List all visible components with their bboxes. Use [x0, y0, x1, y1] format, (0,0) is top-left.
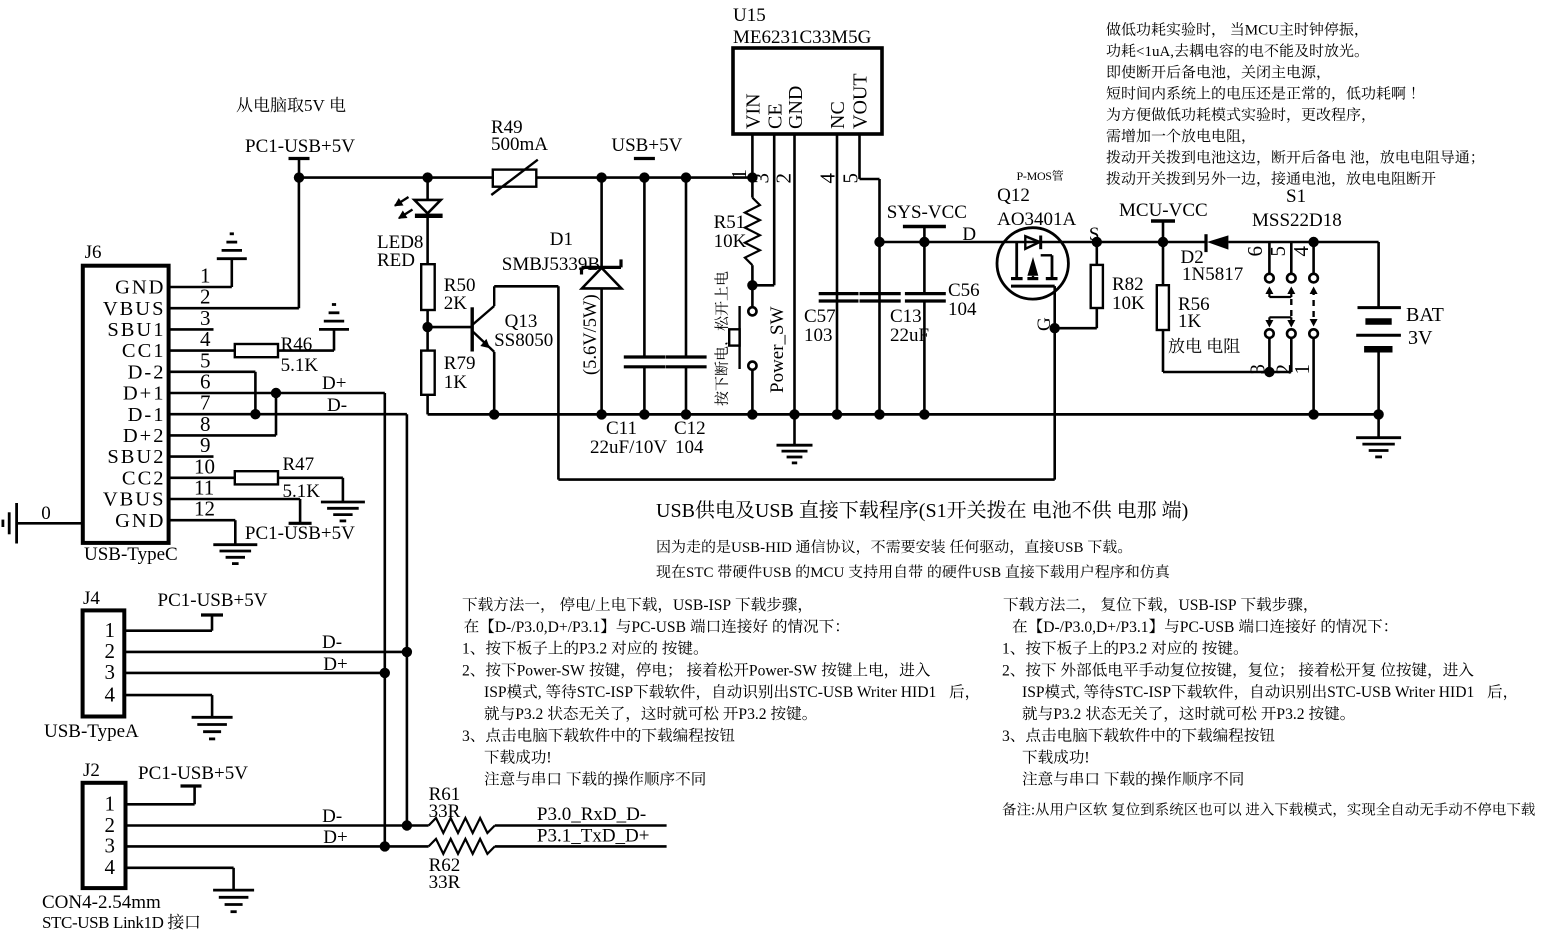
fuse R49 500mA	[493, 170, 537, 187]
power port PC1-USB+5V (J2)	[181, 784, 202, 787]
wire J6 pin12 GND	[169, 519, 236, 522]
method-2 column line 8	[1023, 750, 1084, 764]
svg-text:4: 4	[1289, 246, 1313, 257]
svg-text:P3.2: P3.2	[1276, 706, 1304, 723]
svg-text:J4: J4	[83, 588, 100, 609]
svg-text:P-MOS: P-MOS	[1017, 169, 1052, 183]
svg-text:S1: S1	[1286, 186, 1306, 207]
svg-text:3: 3	[1246, 364, 1270, 375]
ground symbol J6 shield (left)	[15, 503, 18, 544]
svg-text:SYS-VCC: SYS-VCC	[887, 202, 967, 223]
note block top-right line 8	[1107, 171, 1436, 187]
svg-text:SS8050: SS8050	[494, 330, 553, 351]
svg-text:4: 4	[105, 682, 116, 706]
wire J2 pin1 to PC1-USB+5V	[126, 803, 195, 806]
svg-text:/: /	[591, 597, 596, 614]
svg-text:12: 12	[194, 497, 215, 521]
pin number 5	[1266, 246, 1290, 257]
svg-text:MSS22D18: MSS22D18	[1252, 210, 1342, 231]
svg-text:!: !	[546, 750, 551, 767]
svg-text:J6: J6	[85, 242, 102, 263]
svg-text:SMBJ5339B: SMBJ5339B	[502, 254, 600, 275]
connector J2 CON4-2.54mm box	[83, 783, 126, 888]
note block top-right line 7	[1107, 150, 1346, 166]
svg-text:2K: 2K	[444, 293, 468, 314]
wire R79 to gnd rail	[426, 395, 429, 415]
svg-text:1: 1	[1290, 364, 1314, 375]
svg-text:D-: D-	[327, 395, 347, 416]
wire J6 pin0 shield	[17, 522, 83, 525]
svg-text:VIN: VIN	[743, 93, 765, 129]
svg-text:USB: USB	[972, 565, 1001, 581]
wire J6 pin3 SBU1 stub	[169, 328, 214, 331]
svg-text:104: 104	[675, 437, 704, 458]
pin label GND	[785, 86, 807, 129]
pin number 6	[1243, 246, 1267, 257]
svg-text:VBUS: VBUS	[103, 489, 166, 511]
svg-text:103: 103	[804, 325, 833, 346]
zener diode D1 SMBJ5339B	[600, 178, 603, 268]
junction C57 bottom	[832, 409, 842, 419]
svg-text:(S1: (S1	[919, 500, 947, 522]
wire J6 pin5 D-2	[169, 370, 256, 373]
junction PC1 stem	[294, 172, 304, 182]
svg-text:1: 1	[727, 169, 751, 180]
junction R51/CE/switch	[747, 280, 757, 290]
junction Q12 source	[1092, 237, 1102, 247]
svg-text:D+: D+	[323, 654, 347, 675]
wire J4 pin4 GND	[124, 694, 212, 697]
title line 2	[658, 539, 731, 553]
wire U15 VOUT pin to SYS-VCC rail	[858, 134, 861, 179]
svg-text:Power_SW: Power_SW	[767, 306, 788, 393]
svg-text:PC1-USB+5V: PC1-USB+5V	[158, 590, 268, 611]
capacitor C57 103	[819, 292, 859, 295]
svg-text:1: 1	[462, 641, 470, 658]
method-1 column line 8	[485, 750, 546, 764]
svg-text:1N5817: 1N5817	[1182, 264, 1243, 285]
wire J6 pin1 GND	[169, 286, 232, 289]
net label 从电脑取5V电	[237, 97, 304, 113]
capacitor C56 104	[905, 292, 946, 295]
svg-text:USB-TypeC: USB-TypeC	[84, 544, 178, 565]
svg-text:4: 4	[105, 855, 116, 879]
svg-text:D+2: D+2	[123, 425, 166, 447]
wire U15 CE pin	[773, 134, 776, 285]
resistor R79 1K	[421, 351, 435, 395]
svg-text:1: 1	[1002, 641, 1010, 658]
svg-text:R46: R46	[281, 334, 313, 355]
svg-text:C12: C12	[674, 418, 706, 439]
junction D1 top	[596, 172, 606, 182]
svg-text:!: !	[1084, 750, 1089, 767]
ground symbol R46 (inverted)	[319, 328, 349, 331]
svg-text:J2: J2	[83, 760, 100, 781]
svg-text:GND: GND	[115, 510, 165, 532]
note block top-right line 4	[1107, 86, 1406, 102]
ground symbol J6 pin12	[213, 543, 257, 546]
svg-text:VOUT: VOUT	[850, 73, 872, 129]
capacitor C13 22uF	[860, 292, 901, 295]
svg-text:PC1-USB+5V: PC1-USB+5V	[138, 763, 248, 784]
svg-text:C56: C56	[948, 280, 980, 301]
method-2 column line 1	[1004, 597, 1085, 613]
svg-text:NC: NC	[827, 101, 849, 129]
svg-text:PC1-USB+5V: PC1-USB+5V	[245, 136, 355, 157]
junction VIN/rail/R51	[747, 172, 757, 182]
svg-text:0: 0	[41, 503, 51, 524]
note block top-right line 1	[1106, 22, 1214, 38]
svg-text:STC-USB Writer HID1: STC-USB Writer HID1	[789, 684, 936, 701]
svg-text:2: 2	[1002, 662, 1010, 679]
svg-text:5: 5	[1266, 246, 1290, 257]
svg-text:USB-ISP: USB-ISP	[673, 597, 731, 614]
wire J6 pin8 D+2	[169, 434, 276, 437]
wire C56 column	[923, 242, 926, 294]
svg-text:3: 3	[105, 834, 116, 858]
svg-text:10K: 10K	[714, 231, 747, 252]
junction battery bottom	[1373, 409, 1383, 419]
svg-text:D-: D-	[322, 632, 342, 653]
svg-text:STC-ISP: STC-ISP	[577, 684, 634, 701]
svg-text:3: 3	[1002, 728, 1010, 745]
svg-text:USB: USB	[762, 565, 791, 581]
junction SYS-VCC stem	[919, 237, 929, 247]
svg-text:C11: C11	[606, 418, 637, 439]
svg-text:1K: 1K	[1178, 311, 1202, 332]
svg-text:D: D	[962, 224, 976, 245]
svg-text:3: 3	[462, 728, 470, 745]
wire J4 pin2 net D-	[124, 651, 407, 654]
resistor R50 2K	[421, 264, 435, 310]
svg-text:CON4-2.54mm: CON4-2.54mm	[42, 892, 161, 913]
svg-text:USB+5V: USB+5V	[611, 135, 682, 156]
method-2 column line 9	[1023, 771, 1099, 785]
svg-text:Q13: Q13	[505, 311, 538, 332]
junction Q13 emitter	[489, 409, 499, 419]
svg-text:USB: USB	[1054, 540, 1083, 556]
note block top-right line 3	[1107, 65, 1319, 81]
svg-text:D+: D+	[323, 827, 347, 848]
svg-text:<1uA,: <1uA,	[1136, 44, 1174, 60]
svg-text:SBU2: SBU2	[107, 446, 165, 468]
label Power_SW rotated	[767, 306, 788, 393]
svg-text:ISP: ISP	[1022, 684, 1045, 701]
svg-text:33R: 33R	[429, 872, 461, 893]
capacitor C11 22uF/10V	[643, 178, 646, 357]
svg-text:P3.2: P3.2	[1119, 641, 1147, 658]
ground symbol J6 pin1 (inverted)	[217, 257, 247, 260]
wire U15 VIN pin	[751, 134, 754, 178]
wire J6 pin11 VBUS to PC1-USB+5V port	[169, 498, 301, 501]
svg-text:22uF/10V: 22uF/10V	[590, 437, 667, 458]
svg-text:R51: R51	[714, 212, 746, 233]
svg-text:,: ,	[538, 684, 542, 701]
svg-text:D1: D1	[550, 229, 573, 250]
ground symbol battery	[1377, 414, 1380, 437]
power port PC1-USB+5V (J6 bottom)	[289, 522, 312, 525]
junction S1 pin4	[1308, 237, 1318, 247]
svg-text:D+1: D+1	[123, 383, 166, 405]
wire net P3.1_TxD_D+	[495, 845, 667, 848]
svg-text:SBU1: SBU1	[107, 319, 165, 341]
svg-text:STC-USB Link1D: STC-USB Link1D	[42, 913, 164, 932]
svg-text:R82: R82	[1112, 274, 1144, 295]
wire net D+ horizontal	[276, 392, 385, 395]
svg-text:D-/P3.0,D+/P3.1: D-/P3.0,D+/P3.1	[1043, 619, 1148, 636]
wire Q13 collector to Q12 gate	[494, 285, 558, 288]
method-1 column line 9	[485, 771, 561, 785]
note block top-right line 5	[1107, 107, 1365, 123]
wire J6 pin9 SBU2 stub	[169, 455, 214, 458]
transistor Q12 AO3401A	[997, 228, 1068, 299]
svg-text:USB: USB	[755, 500, 794, 522]
svg-text:D+: D+	[322, 373, 346, 394]
resistor R62 33R	[429, 839, 495, 854]
junction C56 bottom	[919, 409, 929, 419]
transistor Q13 SS8050	[471, 307, 474, 351]
ground symbol J2	[213, 889, 254, 892]
pin number 4	[1289, 246, 1313, 257]
svg-text:104: 104	[948, 299, 977, 320]
svg-text:STC-ISP: STC-ISP	[1115, 684, 1172, 701]
svg-text:Power-SW: Power-SW	[517, 662, 585, 679]
connector J4 USB-TypeA box	[83, 610, 125, 716]
pin number 1	[727, 169, 751, 180]
svg-text:10K: 10K	[1112, 293, 1145, 314]
svg-text:D-/P3.0,D+/P3.1: D-/P3.0,D+/P3.1	[495, 619, 600, 636]
note block top-right line 2	[1107, 43, 1136, 57]
resistor R51 10K	[751, 178, 754, 198]
svg-text:R47: R47	[283, 454, 315, 475]
svg-text:C57: C57	[804, 306, 836, 327]
pin label VIN	[743, 93, 765, 129]
pin number 3	[750, 173, 774, 184]
svg-text:PC-USB: PC-USB	[631, 619, 686, 636]
svg-text:P3.0_RxD_D-: P3.0_RxD_D-	[537, 804, 646, 825]
svg-text:,: ,	[1076, 684, 1080, 701]
junction S1 pin3 to R56	[1264, 367, 1274, 377]
junction MCU-VCC	[1158, 237, 1168, 247]
wire J2 pin2 net D-	[126, 824, 429, 827]
svg-text:MCU: MCU	[1245, 23, 1279, 39]
svg-text:CE: CE	[765, 103, 787, 129]
method-1 column line 2	[464, 619, 494, 633]
svg-text:3V: 3V	[1408, 327, 1433, 349]
junction Power_SW bottom	[747, 409, 757, 419]
junction D1 bottom	[596, 409, 606, 419]
svg-text:3: 3	[105, 660, 116, 684]
svg-text:5.1K: 5.1K	[281, 355, 319, 376]
svg-text:2: 2	[462, 662, 470, 679]
svg-text:GND: GND	[785, 86, 807, 129]
svg-text:GND: GND	[115, 277, 165, 299]
svg-text:ME6231C33M5G: ME6231C33M5G	[733, 27, 872, 48]
svg-text:33R: 33R	[429, 801, 461, 822]
pin number 2	[772, 173, 796, 184]
wire net D+ vertical	[383, 393, 386, 846]
ground symbol U15 GND	[793, 414, 796, 445]
svg-text:P3.1_TxD_D+: P3.1_TxD_D+	[537, 826, 650, 847]
svg-text:C13: C13	[890, 306, 922, 327]
wire top rail PC1 to R49	[299, 176, 493, 179]
wire J6 pin2 VBUS to PC1 rail	[169, 307, 299, 310]
svg-text:D-2: D-2	[128, 361, 166, 383]
pin number 5	[839, 173, 863, 184]
svg-text:1K: 1K	[444, 372, 468, 393]
wire net D- vertical	[406, 414, 409, 825]
junction J2 D-	[402, 820, 412, 830]
svg-text:P3.2: P3.2	[515, 706, 543, 723]
junction D- node	[250, 409, 260, 419]
junction SYS-VCC rail start	[874, 237, 884, 247]
svg-text:USB-ISP: USB-ISP	[1179, 597, 1237, 614]
resistor R47 5.1K	[169, 476, 235, 479]
svg-text:STC-USB Writer HID1: STC-USB Writer HID1	[1327, 684, 1474, 701]
pin label VOUT	[850, 73, 872, 129]
resistor R46 5.1K	[169, 349, 235, 352]
svg-text::: :	[1031, 803, 1035, 819]
svg-text:BAT: BAT	[1406, 304, 1444, 326]
title line 3	[656, 564, 685, 578]
junction J2 D+	[380, 841, 390, 851]
wire R49 to VIN	[536, 176, 752, 179]
svg-text:AO3401A: AO3401A	[997, 209, 1076, 230]
wire J6 pin7 D-1 / net D-	[169, 413, 407, 416]
pin number 2	[1272, 364, 1296, 375]
pushbutton Power_SW	[751, 285, 754, 307]
pin label CE	[765, 103, 787, 129]
resistor R56 1K	[1162, 242, 1165, 285]
method-2 column line 2	[1013, 619, 1043, 633]
wire S1 to battery	[1314, 241, 1379, 244]
ground symbol J4	[192, 716, 233, 719]
svg-text:STC: STC	[686, 565, 714, 581]
wire Q13 base	[428, 326, 473, 329]
note block top-right line 6	[1107, 129, 1245, 145]
svg-text:USB-HID: USB-HID	[731, 540, 792, 556]
pin number 3	[1246, 364, 1270, 375]
svg-text:PC1-USB+5V: PC1-USB+5V	[245, 523, 355, 544]
svg-text:MCU-VCC: MCU-VCC	[1119, 200, 1208, 221]
wire D2 to S1/battery	[1228, 241, 1313, 244]
svg-text:CC2: CC2	[122, 467, 166, 489]
svg-text:P3.2: P3.2	[1053, 706, 1081, 723]
svg-text:(5.6V/5W): (5.6V/5W)	[581, 294, 601, 375]
svg-text:Power-SW: Power-SW	[749, 662, 817, 679]
connector J6 USB-TypeC box	[83, 266, 169, 543]
method-1 column line 6	[485, 706, 515, 720]
svg-text:D-: D-	[322, 806, 342, 827]
svg-text:USB: USB	[656, 500, 695, 522]
junction J4 D-	[402, 647, 412, 657]
capacitor C12 104	[685, 178, 688, 357]
wire J2 pin4 GND	[126, 866, 234, 869]
svg-text:PC-USB: PC-USB	[1180, 619, 1235, 636]
power port PC1-USB+5V (J4)	[201, 613, 223, 616]
diode D2 1N5817	[1204, 234, 1207, 252]
junction Q12 gate node	[1050, 323, 1060, 333]
wire U15 NC pin / C57 column	[836, 134, 839, 414]
method-1 column line 1	[463, 597, 544, 613]
resistor R61 33R	[429, 818, 495, 833]
wire J6 pin6 D+1	[169, 392, 276, 395]
pin number 1	[1290, 364, 1314, 375]
svg-text:ISP: ISP	[484, 684, 507, 701]
wire J2 pin3 net D+	[126, 845, 429, 848]
svg-text:6: 6	[1243, 246, 1267, 257]
pin label NC	[827, 101, 849, 129]
wire net P3.0_RxD_D-	[495, 824, 667, 827]
label 按下断电松开上电 rotated	[714, 271, 730, 405]
battery BAT 3V	[1358, 306, 1401, 309]
svg-text:USB-TypeA: USB-TypeA	[44, 721, 139, 742]
junction C13 bottom	[874, 409, 884, 419]
svg-text:): )	[1182, 500, 1189, 522]
LED LED8 RED	[426, 178, 429, 200]
pin number 4	[816, 173, 840, 184]
wire U15 GND pin	[793, 134, 796, 414]
junction J4 D+	[380, 668, 390, 678]
junction LED8 tap	[422, 172, 432, 182]
switch S1 contacts	[1268, 242, 1271, 274]
junction S1 pin1 to gnd	[1308, 409, 1318, 419]
svg-text:RED: RED	[377, 250, 415, 271]
svg-text:5V: 5V	[304, 96, 326, 115]
method-2 column line 6	[1023, 706, 1053, 720]
svg-text:MCU: MCU	[810, 565, 844, 581]
svg-text:R79: R79	[444, 353, 476, 374]
op-amp U15 ME6231C33M5G box	[733, 48, 882, 134]
ground symbol R47	[321, 501, 365, 504]
wire SYS-VCC rail	[880, 241, 1207, 244]
value label (5.6V/5W) rotated	[581, 294, 601, 375]
junction D+ node	[271, 388, 281, 398]
svg-text:P3.2: P3.2	[579, 641, 607, 658]
svg-text:VBUS: VBUS	[103, 298, 166, 320]
node G label rotated	[1034, 317, 1055, 331]
svg-text:P3.2: P3.2	[738, 706, 766, 723]
junction R50/R79/Q13 base node	[426, 310, 429, 351]
label 放电电阻	[1169, 338, 1202, 354]
wire J4 pin1 to PC1-USB+5V	[124, 629, 212, 632]
svg-text:D-1: D-1	[128, 404, 166, 426]
junction U15 GND	[789, 409, 799, 419]
svg-text:CC1: CC1	[122, 340, 166, 362]
wire J4 pin3 net D+	[124, 672, 385, 675]
svg-text:U15: U15	[733, 5, 766, 26]
wire ground rail	[428, 413, 1379, 416]
remark line	[1002, 802, 1030, 815]
resistor R82 10K	[1096, 242, 1099, 265]
svg-text:Q12: Q12	[997, 185, 1030, 206]
svg-text:500mA: 500mA	[491, 134, 548, 155]
